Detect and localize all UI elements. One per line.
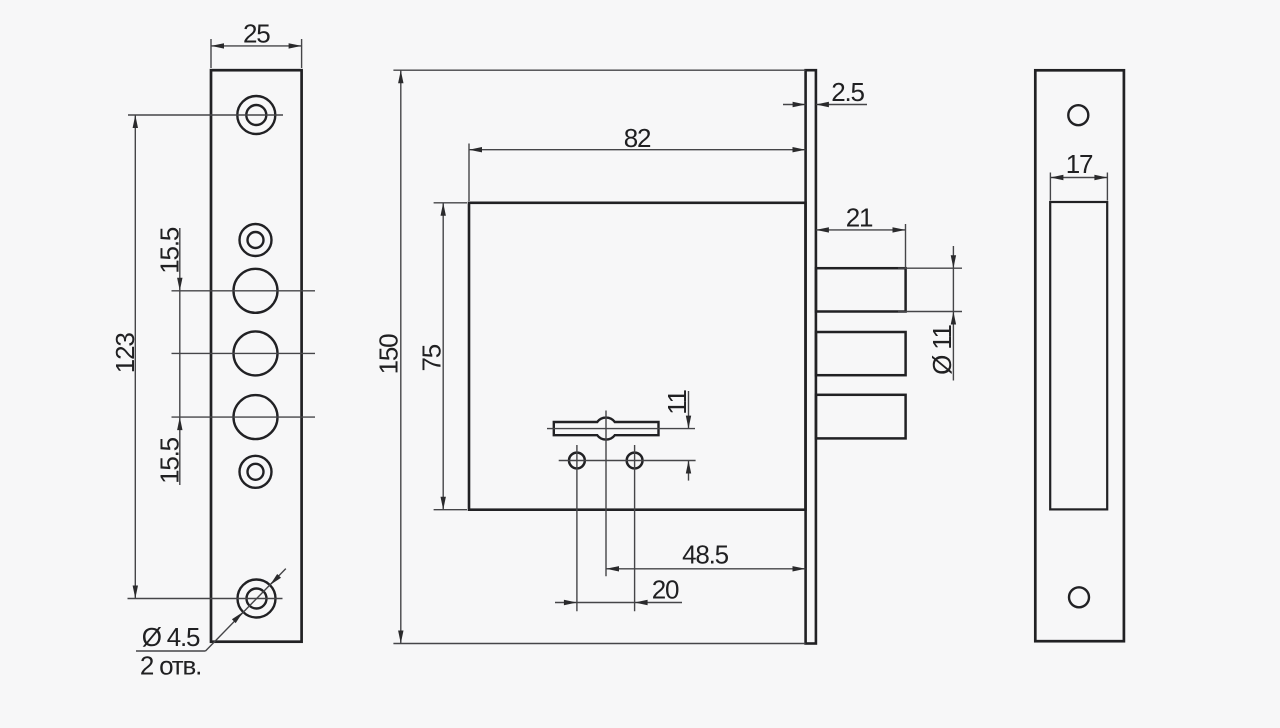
svg-text:17: 17 <box>1066 149 1093 179</box>
dimension 25 line with arrows <box>211 43 302 48</box>
dimension 123 label <box>110 333 140 374</box>
dimension 82 line with arrows <box>469 147 806 152</box>
fixing screw hole left <box>569 453 585 469</box>
hole C2 centerline <box>172 352 316 354</box>
dimension 15.5 lower label <box>155 437 185 484</box>
dimension 75 bottom extension line <box>434 509 467 511</box>
svg-text:15.5: 15.5 <box>155 437 185 484</box>
cylinder hole C2 <box>234 331 278 375</box>
dimension 17 label <box>1066 149 1093 179</box>
bolt diameter bottom extension line <box>898 311 962 313</box>
strike plate bottom hole <box>1069 587 1089 607</box>
screw left vertical centerline <box>576 445 578 611</box>
dimension 21 label <box>846 203 873 233</box>
bottom screw hole <box>238 580 276 618</box>
dimension 11 label <box>662 389 692 414</box>
dimension 150 line with arrows <box>398 70 403 643</box>
dimension 150 top extension line <box>393 69 805 71</box>
label 2 holes <box>140 651 201 681</box>
lock faceplate edge-on <box>806 70 816 643</box>
dimension 11 line with arrows <box>686 391 691 481</box>
bottom hole centerline <box>128 598 283 600</box>
dimension 75 line with arrows <box>441 203 446 510</box>
svg-text:15.5: 15.5 <box>155 227 185 274</box>
front faceplate outline <box>211 70 302 642</box>
strike plate outline <box>1035 70 1124 641</box>
dimension 48.5 label <box>682 540 729 570</box>
dimension 75 top extension line <box>434 202 467 204</box>
dimension 2.5 label <box>831 77 864 107</box>
svg-text:2.5: 2.5 <box>831 77 864 107</box>
dimension 150 label <box>374 334 404 375</box>
diameter 4.5 leader underline <box>136 650 206 652</box>
bolt 3 <box>816 395 906 439</box>
diameter 4.5 leader line <box>206 569 286 651</box>
cylinder hole C1 <box>234 269 278 313</box>
svg-text:2 отв.: 2 отв. <box>140 651 201 681</box>
svg-text:11: 11 <box>662 389 692 414</box>
hole C1 centerline <box>172 290 316 292</box>
dimension 2.5 right arrow <box>816 102 867 107</box>
bolt 2 <box>816 332 906 375</box>
strike plate slot <box>1050 202 1107 509</box>
dimension 25 extension lines <box>211 39 302 68</box>
svg-text:48.5: 48.5 <box>682 540 729 570</box>
dimension 123 line with arrows <box>133 115 138 599</box>
bolt 1 <box>816 268 906 311</box>
dimension diameter 11 label <box>927 324 957 374</box>
screw right vertical centerline <box>634 445 636 611</box>
dimension 20 line with arrows <box>555 600 682 605</box>
dimension 17 extension lines <box>1050 173 1107 201</box>
bolt diameter top extension line <box>898 267 962 269</box>
svg-text:25: 25 <box>243 18 270 48</box>
dimension 2.5 left arrow <box>783 102 806 107</box>
dimension 150 bottom extension line <box>393 643 805 645</box>
strike plate top hole <box>1068 105 1088 125</box>
small hole B <box>240 224 272 256</box>
dimension 82 extension line <box>468 144 470 202</box>
top screw hole <box>237 96 275 134</box>
svg-text:123: 123 <box>110 333 140 374</box>
dimension 75 label <box>416 344 446 371</box>
svg-text:150: 150 <box>374 334 404 375</box>
dimension 17 line with arrows <box>1050 175 1107 180</box>
dimension 15.5 upper label <box>155 227 185 274</box>
keyhole vertical centerline <box>605 411 607 577</box>
svg-text:82: 82 <box>624 123 651 153</box>
dimension diameter 11 line with arrows <box>951 246 956 381</box>
dimension 82 label <box>624 123 651 153</box>
label diameter 4.5 <box>142 622 200 652</box>
dimension 48.5 line with arrows <box>606 566 806 571</box>
svg-text:Ø 11: Ø 11 <box>927 324 957 374</box>
top hole centerline <box>128 114 283 116</box>
hole C3 centerline <box>172 416 316 418</box>
svg-text:21: 21 <box>846 203 873 233</box>
fixing screw hole right <box>627 453 643 469</box>
dimension 25 label <box>243 18 270 48</box>
svg-text:75: 75 <box>416 344 446 371</box>
keyhole horizontal centerline <box>547 428 695 430</box>
keyhole slot <box>554 418 659 440</box>
dimension 20 label <box>652 575 679 605</box>
svg-text:Ø 4.5: Ø 4.5 <box>142 622 200 652</box>
dimension 15.5 line with arrows <box>177 228 182 485</box>
cylinder hole C3 <box>234 395 278 439</box>
lock body outline <box>469 203 806 510</box>
dimension 21 extension line <box>905 224 907 269</box>
screw horizontal centerline <box>559 460 696 462</box>
small hole D <box>240 456 272 488</box>
dimension 21 line with arrows <box>816 227 906 232</box>
svg-text:20: 20 <box>652 575 679 605</box>
